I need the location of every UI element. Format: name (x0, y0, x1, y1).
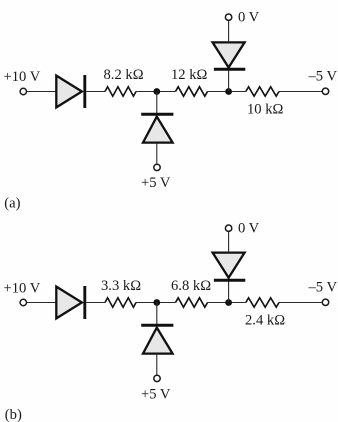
terminal −5 V (b) (322, 299, 328, 305)
wire: D1 cathode to R1 (b) (86, 302, 105, 304)
diode D3 clamp to +5 V (a) (141, 114, 173, 142)
wire: +10 V terminal to D1 anode (a) (27, 91, 57, 93)
resistor R3 2.4 kΩ (b) (246, 298, 279, 307)
svg-text:10 kΩ: 10 kΩ (247, 102, 284, 118)
svg-text:(a): (a) (4, 195, 20, 211)
wire: D2 anode to 0 V terminal (a) (228, 20, 230, 42)
node A junction dot (a) (153, 88, 160, 95)
svg-text:+5 V: +5 V (141, 386, 171, 402)
svg-text:(b): (b) (5, 407, 22, 422)
svg-text:–5 V: –5 V (308, 280, 338, 296)
node B junction dot (a) (225, 88, 232, 95)
terminal +10 V (a) (20, 88, 26, 94)
resistor R2 12 kΩ (a) (176, 87, 208, 96)
terminal −5 V (a) (322, 88, 328, 94)
terminal +5 V (b) (154, 375, 160, 381)
diode D2 clamp to 0 V (b) (213, 253, 246, 281)
wire: node A down to D3 cathode (b) (156, 303, 158, 326)
wire: +10 V terminal to D1 anode (b) (27, 302, 57, 304)
wire: node B up to D2 cathode (b) (228, 280, 230, 303)
svg-text:6.8 kΩ: 6.8 kΩ (171, 278, 211, 294)
svg-text:+5 V: +5 V (141, 175, 171, 191)
wire: R2 to R3 through node B (a) (208, 91, 246, 93)
wire: node A down to D3 cathode (a) (156, 92, 158, 115)
svg-text:8.2 kΩ: 8.2 kΩ (104, 67, 144, 83)
svg-text:12 kΩ: 12 kΩ (171, 67, 208, 83)
resistor R1 8.2 kΩ (a) (105, 87, 136, 96)
svg-text:2.4 kΩ: 2.4 kΩ (245, 313, 285, 329)
terminal 0 V (b) (225, 225, 231, 231)
terminal 0 V (a) (225, 14, 231, 20)
wire: R1 to R2 through node A (b) (136, 302, 176, 304)
node A junction dot (b) (153, 299, 160, 306)
wire: R2 to R3 through node B (b) (208, 302, 246, 304)
resistor R2 6.8 kΩ (b) (176, 298, 208, 307)
svg-text:0 V: 0 V (238, 221, 260, 237)
wire: D3 anode to +5 V terminal (b) (156, 354, 158, 376)
wire: R3 to −5 V terminal (a) (279, 91, 322, 93)
diode D2 clamp to 0 V (a) (213, 42, 246, 69)
node B junction dot (b) (225, 299, 232, 306)
svg-text:+10 V: +10 V (4, 69, 41, 85)
terminal +10 V (b) (20, 299, 26, 305)
diode D1 series input diode (a) (56, 75, 85, 108)
svg-text:0 V: 0 V (238, 10, 260, 26)
diode D1 series input diode (b) (56, 286, 85, 319)
wire: R3 to −5 V terminal (b) (279, 302, 322, 304)
wire: R1 to R2 through node A (a) (136, 91, 176, 93)
wire: node B up to D2 cathode (a) (228, 69, 230, 92)
wire: D2 anode to 0 V terminal (b) (228, 231, 230, 252)
diode D3 clamp to +5 V (b) (141, 325, 173, 353)
resistor R3 10 kΩ (a) (246, 87, 279, 96)
svg-text:–5 V: –5 V (308, 69, 338, 85)
svg-text:+10 V: +10 V (4, 280, 41, 296)
terminal +5 V (a) (154, 164, 160, 170)
resistor R1 3.3 kΩ (b) (105, 298, 136, 307)
wire: D3 anode to +5 V terminal (a) (156, 143, 158, 165)
svg-text:3.3 kΩ: 3.3 kΩ (101, 278, 141, 294)
wire: D1 cathode to R1 (a) (86, 91, 105, 93)
